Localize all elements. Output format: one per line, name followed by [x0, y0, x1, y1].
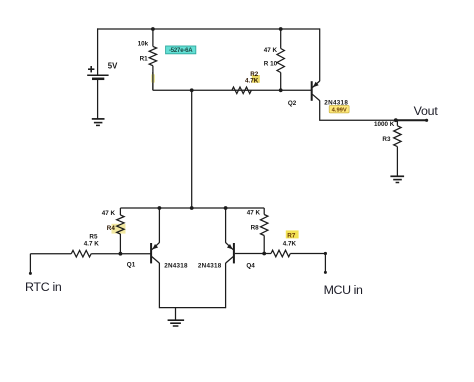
svg-text:47 K: 47 K [264, 47, 278, 54]
svg-text:Q2: Q2 [288, 100, 297, 107]
probe highlight on R1 lead [151, 72, 155, 90]
resistor R1 10k [138, 29, 157, 90]
svg-text:Q1: Q1 [127, 261, 136, 268]
svg-text:R5: R5 [89, 233, 98, 240]
resistor R7 4.7K [271, 240, 297, 256]
svg-text:2N4318: 2N4318 [198, 263, 222, 270]
wire Q4 emitter drop [225, 263, 227, 308]
probe highlight on R4 [112, 224, 126, 234]
svg-text:1000 K: 1000 K [374, 121, 395, 128]
wire RTC input branch [30, 254, 151, 274]
node R10 top [279, 27, 283, 31]
wire emitter join [159, 307, 225, 309]
node R3 tap junction [394, 118, 398, 122]
node Q1 collector on rail [158, 206, 162, 210]
transistor Q1 2N4318 [127, 243, 188, 270]
wire Q2 collector drop [319, 28, 321, 81]
node RTC terminal [29, 272, 32, 275]
wire Q1 collector [158, 208, 160, 243]
current annotation -527e-6A [166, 46, 196, 54]
node MCU terminal [324, 271, 327, 274]
node MCU corner [324, 252, 327, 255]
svg-text:4.7 K: 4.7 K [84, 240, 100, 247]
svg-text:Vout: Vout [414, 104, 439, 118]
node R10 bottom junction [279, 88, 283, 92]
svg-text:47 K: 47 K [247, 209, 261, 216]
svg-text:Q4: Q4 [246, 263, 255, 270]
svg-text:4.99V: 4.99V [332, 108, 347, 114]
svg-text:10k: 10k [138, 41, 149, 48]
svg-text:4.7K: 4.7K [283, 240, 297, 247]
svg-text:R7: R7 [287, 232, 296, 239]
transistor Q2 2N4318 [288, 81, 348, 107]
ground (battery) [92, 119, 105, 126]
svg-text:-527e-6A: -527e-6A [169, 48, 193, 54]
wire mid rail (R1 bottom to Q2 base) [153, 89, 312, 91]
ground (emitter join) [168, 308, 185, 326]
resistor R3 [382, 120, 401, 175]
svg-text:R8: R8 [251, 224, 260, 231]
node R1-top junction [151, 27, 155, 31]
label RTC in [25, 280, 62, 294]
battery V1 5V [87, 28, 118, 119]
svg-text:R1: R1 [140, 55, 149, 62]
node Vout terminal [425, 119, 428, 122]
svg-text:MCU in: MCU in [324, 283, 363, 297]
node R4 bottom junction [119, 252, 123, 256]
label MCU in [324, 283, 363, 297]
svg-text:47 K: 47 K [102, 210, 116, 217]
resistor R5 4.7K [71, 233, 99, 257]
wire center drop to lower stage [191, 90, 193, 208]
node mid-rail to lower stage [190, 88, 194, 92]
probe highlight label R7 [286, 230, 299, 239]
node Q4 collector on rail [224, 206, 228, 210]
node R8 bottom junction [262, 252, 266, 256]
node center drop on rail [190, 206, 194, 210]
wire Vout net [319, 100, 427, 120]
probe highlight on R2 label [252, 75, 260, 83]
svg-text:R4: R4 [107, 225, 116, 232]
wire lower rail [120, 207, 264, 209]
resistor R2 4.7K [232, 71, 259, 93]
svg-text:R3: R3 [382, 136, 391, 143]
label Vout [414, 104, 439, 118]
voltage annotation 4.99V [329, 106, 349, 114]
wire Q1 emitter drop [158, 263, 160, 308]
resistor R8 47K [247, 208, 268, 254]
svg-text:RTC in: RTC in [25, 280, 62, 294]
transistor Q4 2N4318 [198, 243, 255, 270]
wire Q4 collector [225, 208, 227, 243]
svg-text:5V: 5V [108, 62, 118, 71]
svg-text:R 10: R 10 [264, 60, 278, 67]
wire top rail [97, 28, 320, 30]
svg-text:2N4318: 2N4318 [164, 263, 188, 270]
ground (R3) [390, 176, 404, 182]
label 1000 K (R3 value) [374, 121, 395, 128]
svg-text:4.7K: 4.7K [245, 78, 259, 85]
resistor R10 47K [264, 29, 285, 90]
wire MCU input branch [235, 254, 326, 273]
resistor R4 47K [102, 208, 124, 254]
